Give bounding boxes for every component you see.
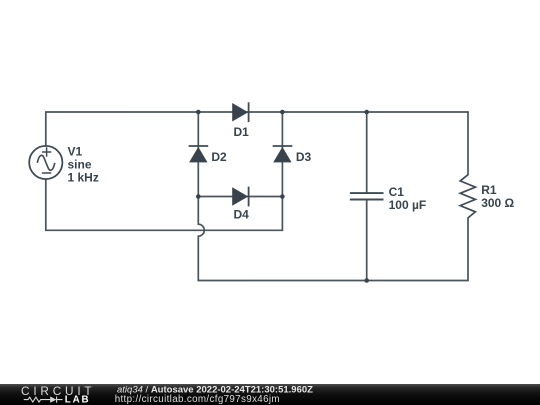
wire right bridge column	[281, 112, 283, 197]
wire right column down to V1 return	[281, 197, 283, 231]
svg-text:sine: sine	[68, 157, 92, 171]
wire bottom horizontal net	[198, 280, 468, 282]
svg-text:http://circuitlab.com/cfg797s9: http://circuitlab.com/cfg797s9x46jm	[115, 394, 280, 405]
junction node: right middle (D3 anode / D4 cathode)	[280, 194, 285, 199]
capacitor C1	[350, 193, 384, 199]
svg-text:300 Ω: 300 Ω	[481, 196, 514, 210]
junction node: left middle (D2/D4 anodes)	[196, 194, 201, 199]
svg-text:C1: C1	[389, 185, 405, 199]
wire middle horizontal (D4 row)	[198, 196, 282, 198]
svg-text:1 kHz: 1 kHz	[68, 170, 99, 184]
wire V1 bottom vertical	[45, 179, 47, 230]
resistor R1	[460, 175, 475, 218]
svg-text:LAB: LAB	[65, 394, 91, 405]
svg-text:D1: D1	[234, 125, 250, 139]
svg-text:D3: D3	[296, 150, 312, 164]
wire C1 column bottom	[366, 200, 368, 280]
voltage source V1	[29, 146, 62, 179]
wire left bridge column	[197, 112, 199, 197]
wire R1 column bottom	[467, 218, 469, 281]
svg-text:R1: R1	[481, 183, 497, 197]
junction node: top of right bridge column	[280, 110, 285, 115]
junction node: top of C1	[364, 110, 369, 115]
wire C1 column top	[366, 112, 368, 192]
wire R1 column top	[467, 112, 469, 175]
svg-text:100 µF: 100 µF	[389, 198, 427, 212]
junction node: bottom of C1	[364, 278, 369, 283]
diode D4	[232, 187, 248, 207]
wire top horizontal net	[46, 111, 468, 113]
wire V1 return horizontal	[46, 229, 283, 231]
diode D3	[273, 146, 293, 162]
svg-text:V1: V1	[68, 144, 83, 158]
svg-text:D4: D4	[234, 208, 250, 222]
wire left column to bottom with hop over V1 return	[198, 197, 204, 281]
svg-text:D2: D2	[211, 150, 227, 164]
wire V1 top vertical	[45, 112, 47, 146]
diode D1	[232, 102, 248, 122]
diode D2	[189, 146, 209, 162]
CircuitLab logo schematic flourish (resistor + diode)	[24, 397, 63, 403]
junction node: top of left bridge column	[196, 110, 201, 115]
